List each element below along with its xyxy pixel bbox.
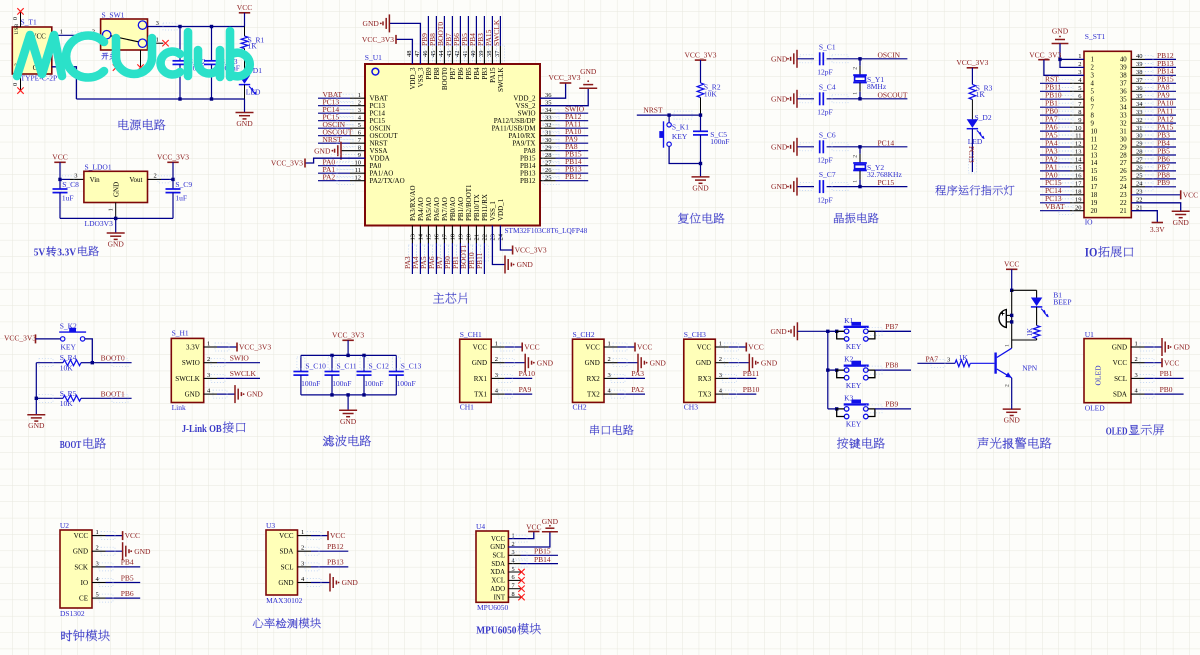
chip pin 48 VDD_3 to VCC_3V3	[362, 35, 417, 90]
svg-text:VCC_3V3: VCC_3V3	[362, 35, 394, 44]
svg-text:PA3: PA3	[631, 369, 644, 378]
label OLED显示屏	[1106, 424, 1164, 437]
CH2 pin1 VCC	[604, 343, 652, 352]
ground C6 left	[771, 138, 814, 156]
chip pin 3 PC14 net PC14	[318, 105, 386, 118]
svg-text:PB6: PB6	[457, 67, 465, 80]
junction C4	[858, 97, 861, 100]
svg-text:18: 18	[450, 234, 457, 241]
J-Link pin3 SWCLK	[204, 369, 260, 382]
IO port row 7 pin numbers	[1078, 101, 1143, 112]
chip pin 12 PA2/TX/AO net PA2	[318, 172, 405, 185]
svg-text:24: 24	[498, 233, 505, 240]
svg-text:BOOT1: BOOT1	[101, 389, 125, 398]
svg-text:PA2/TX/AO: PA2/TX/AO	[370, 177, 405, 185]
J-Link pin1 VCC_3V3	[204, 343, 272, 352]
junction C6	[858, 145, 861, 148]
svg-text:MPU6050: MPU6050	[477, 603, 509, 612]
svg-text:22: 22	[1120, 200, 1127, 207]
svg-text:PB9: PB9	[885, 400, 898, 409]
svg-text:GND: GND	[314, 146, 331, 155]
svg-text:Link: Link	[172, 403, 186, 412]
IO port pin 37 net PB15	[1131, 75, 1176, 88]
IO pin22 ground	[1131, 203, 1189, 227]
OLED pin1 ground	[1131, 338, 1190, 356]
chip pin 44 BOOT0 net BOOT0	[436, 16, 449, 90]
label 滤波电路	[323, 435, 371, 446]
button K1 KEY	[828, 316, 875, 351]
T1 no-connect stub top	[12, 8, 24, 27]
capacitor C2	[173, 27, 206, 100]
ground power circuit	[236, 99, 254, 128]
U3 pin 4 name	[278, 576, 305, 587]
wire alarm vertical	[1010, 290, 1013, 340]
svg-text:PB7: PB7	[449, 67, 457, 80]
label 电源电路	[119, 119, 166, 130]
svg-text:1: 1	[108, 208, 115, 211]
svg-text:VCC: VCC	[125, 531, 140, 540]
IO port pin 8 net PB0	[1040, 107, 1084, 120]
U4 pin 5 no-connect	[508, 569, 524, 575]
svg-text:S_C9: S_C9	[175, 180, 192, 189]
svg-text:VCC: VCC	[585, 343, 600, 351]
IO port pin 27 net PB6	[1131, 154, 1176, 167]
IO port pin 15 net PA1	[1040, 162, 1084, 175]
power port VCC alarm	[1004, 260, 1019, 291]
chip pin 4 PC15 net PC15	[318, 112, 386, 125]
svg-text:PB10/TX: PB10/TX	[473, 194, 481, 221]
resistor 1K alarm	[1026, 326, 1040, 341]
svg-text:GND: GND	[692, 183, 709, 192]
connector CH1 body	[460, 330, 492, 412]
IO port row 14 pin numbers	[1075, 157, 1143, 168]
svg-text:PB10: PB10	[743, 385, 760, 394]
svg-text:USB: USB	[14, 23, 20, 34]
ground reset	[692, 164, 710, 193]
svg-text:6: 6	[1091, 97, 1095, 104]
svg-text:PB12: PB12	[520, 177, 536, 185]
chip pin 27 PB14 net PB14	[520, 157, 588, 170]
junction ldo-in	[58, 178, 61, 181]
svg-text:VCC: VCC	[330, 531, 345, 540]
svg-text:100nF: 100nF	[301, 379, 320, 388]
chip pin 38 PA15 net PA15	[484, 16, 497, 83]
svg-text:GND: GND	[1174, 343, 1191, 352]
chip pin 5 OSCIN net OSCIN	[318, 120, 391, 133]
svg-text:GND: GND	[1052, 27, 1069, 36]
svg-text:DS1302: DS1302	[60, 609, 85, 618]
svg-text:KEY: KEY	[846, 420, 862, 429]
CH1 pin2 ground	[491, 354, 553, 372]
U3 pin 3 name	[281, 560, 305, 571]
svg-text:GND: GND	[770, 327, 787, 336]
svg-text:17: 17	[1091, 184, 1098, 191]
IO port pin 11 net PA5	[1040, 130, 1084, 143]
CH1 pin 2 name	[472, 356, 498, 367]
U3 pin4 ground	[298, 574, 359, 592]
svg-text:TX1: TX1	[474, 391, 487, 399]
power port VCC_3V3 IO	[1029, 51, 1084, 76]
chip pin 26 PB13 net PB13	[520, 165, 588, 178]
SW1 pin1 no-connect	[148, 37, 169, 47]
chip pin 18 PB0/AO net PB0	[443, 197, 457, 274]
svg-text:S_CH1: S_CH1	[460, 330, 482, 339]
svg-text:S_K1: S_K1	[672, 123, 689, 132]
IO port row 12 pin numbers	[1075, 141, 1143, 152]
svg-text:SDA: SDA	[491, 561, 505, 568]
svg-text:OSCIN: OSCIN	[878, 50, 901, 59]
OLED pin4 net PB0	[1131, 385, 1184, 398]
svg-text:13: 13	[410, 234, 417, 241]
svg-text:SCL: SCL	[281, 563, 294, 571]
svg-text:GND: GND	[185, 391, 200, 399]
svg-text:GND: GND	[585, 359, 600, 367]
svg-text:100nF: 100nF	[397, 379, 416, 388]
U4 pin 1 name	[491, 532, 515, 542]
svg-text:U4: U4	[476, 522, 485, 531]
svg-text:33: 33	[1120, 112, 1127, 119]
chip pin 22 PB11/RX net PB11	[475, 194, 489, 274]
svg-text:18: 18	[1091, 192, 1098, 199]
IO port pin 17 net PC15	[1040, 178, 1084, 191]
svg-text:U1: U1	[1085, 330, 1094, 339]
junction boot gnd	[35, 397, 38, 400]
chip pin 42 PB6 net PB6	[452, 16, 465, 80]
chip pin 10 PA0 net PA0	[318, 157, 382, 170]
svg-text:4: 4	[1091, 81, 1095, 88]
svg-text:VCC_3V3: VCC_3V3	[515, 246, 547, 255]
label BOOT电路	[60, 438, 106, 451]
svg-text:GND: GND	[771, 54, 788, 63]
U3 pin3 net PB13	[298, 558, 349, 571]
svg-text:15: 15	[1091, 168, 1098, 175]
svg-text:15: 15	[426, 234, 433, 241]
chip pin 36 VDD_2 to VCC_3V3	[513, 73, 580, 102]
capacitor C12	[357, 355, 390, 395]
svg-text:40: 40	[1120, 57, 1127, 64]
power port VCC_3V3 reset	[684, 50, 716, 60]
svg-text:J-Link OB: J-Link OB	[182, 424, 222, 435]
U2 pin 2 name	[73, 545, 99, 556]
CH3 pin 3 name	[698, 372, 722, 383]
svg-text:S_LDO1: S_LDO1	[85, 163, 112, 172]
OLED pin 3 name	[1114, 372, 1138, 383]
svg-text:1K: 1K	[248, 42, 258, 51]
svg-text:GND: GND	[1112, 343, 1127, 351]
ground IO top	[1052, 27, 1084, 68]
chip pin 15 PA5/AO net PA5	[419, 197, 433, 274]
label 复位电路	[678, 213, 725, 224]
IO port pin 13 net PA3	[1040, 146, 1084, 159]
chip pin 45 PB8 net PB8	[428, 16, 441, 80]
svg-text:GND: GND	[490, 544, 505, 551]
svg-text:GND: GND	[537, 358, 554, 367]
svg-text:39: 39	[1120, 65, 1127, 72]
svg-text:S_T1: S_T1	[21, 18, 38, 27]
svg-text:SWCLK: SWCLK	[492, 19, 501, 46]
U4 pin2 ground	[508, 517, 558, 547]
net NRST wire	[637, 105, 701, 119]
U2 pin1 VCC	[92, 531, 140, 540]
svg-text:24: 24	[1120, 184, 1127, 191]
svg-text:12pF: 12pF	[817, 156, 832, 165]
svg-text:3.3V: 3.3V	[57, 246, 76, 258]
wire LDO gnd pin	[108, 203, 116, 219]
IO port pin 19 net PC13	[1040, 194, 1084, 207]
IO port pin 32 net PA12	[1131, 115, 1176, 128]
U4 pin4 net PB14	[508, 555, 558, 567]
diode LED alarm	[1031, 290, 1072, 325]
svg-text:VCC: VCC	[1004, 260, 1019, 269]
IO port pin 35 net PA9	[1131, 91, 1176, 104]
buzzer B1	[999, 310, 1012, 328]
IO pin21 3.3V	[1131, 211, 1165, 234]
CH3 pin2 ground	[715, 354, 777, 372]
CH1 pin1 VCC	[491, 343, 539, 352]
ground C4 left	[771, 90, 814, 108]
svg-text:1uF: 1uF	[175, 193, 187, 202]
CH1 pin 3 name	[474, 372, 498, 383]
svg-text:VCC_3V3: VCC_3V3	[271, 159, 303, 168]
svg-text:K3: K3	[844, 394, 853, 403]
svg-text:VCC: VCC	[279, 532, 294, 540]
svg-text:S_ST1: S_ST1	[1085, 32, 1106, 41]
wire alarm gnd stub	[1011, 403, 1013, 409]
svg-text:LDO3V3: LDO3V3	[85, 219, 114, 228]
junction nrst-key	[667, 113, 670, 116]
junction IO gnd pin1	[1058, 58, 1061, 61]
wire boot left bus	[35, 363, 37, 399]
CH2 pin 2 name	[585, 356, 611, 367]
svg-text:GND: GND	[542, 517, 559, 526]
label 时钟模块	[61, 630, 110, 642]
svg-text:21: 21	[1120, 208, 1127, 215]
svg-text:28: 28	[1120, 152, 1127, 159]
power port VCC_3V3 indicator	[956, 58, 988, 84]
IO port pin 6 net PB10	[1040, 91, 1084, 104]
svg-text:23: 23	[1120, 192, 1127, 199]
button K1 KEY reset	[659, 115, 700, 163]
chip pin 1 VBAT net VBAT	[318, 90, 389, 103]
U2 pin5 net PB6	[92, 589, 140, 602]
svg-text:GND: GND	[247, 390, 264, 399]
svg-text:PB5: PB5	[465, 67, 473, 80]
IO port pin 18 net PC14	[1040, 186, 1084, 199]
svg-text:SWIO: SWIO	[230, 353, 250, 362]
IO port row 19 pin numbers	[1075, 197, 1143, 208]
svg-text:12pF: 12pF	[817, 68, 832, 77]
svg-text:BEEP: BEEP	[1053, 298, 1071, 307]
chip pin 32 PA11/USB/DM net PA11	[492, 120, 589, 133]
svg-text:8: 8	[1091, 112, 1095, 119]
svg-text:9: 9	[1091, 120, 1095, 127]
svg-text:VSS_1: VSS_1	[489, 201, 497, 221]
junction C2 top	[178, 25, 181, 28]
wire Vout	[148, 173, 174, 183]
label IO拓展口	[1085, 245, 1133, 259]
CH3 pin 2 name	[696, 356, 722, 367]
svg-text:GND: GND	[1173, 218, 1190, 227]
svg-text:VCC_3V3: VCC_3V3	[4, 334, 36, 343]
junction C1	[858, 57, 861, 60]
power GND rail bottom	[76, 97, 244, 100]
net PC14	[878, 138, 895, 147]
svg-text:PA7: PA7	[926, 354, 939, 363]
connector CH3 body	[684, 330, 716, 412]
svg-text:NPN: NPN	[1022, 363, 1038, 372]
button K2 KEY boot	[59, 322, 86, 352]
svg-text:VCC: VCC	[637, 343, 652, 352]
IO port row 3 pin numbers	[1078, 69, 1142, 80]
svg-text:PA6/AO: PA6/AO	[433, 197, 441, 221]
svg-text:21: 21	[474, 234, 481, 241]
svg-text:31: 31	[1120, 128, 1127, 135]
chip pin 17 PA7/AO net PA7	[435, 197, 449, 274]
svg-text:PA15: PA15	[489, 67, 497, 83]
svg-text:GND: GND	[236, 119, 253, 128]
svg-text:IO: IO	[1085, 245, 1098, 259]
junction ldo-out	[171, 178, 174, 181]
chip pin 25 PB12 net PB12	[520, 172, 588, 185]
svg-text:VCC: VCC	[526, 522, 541, 531]
U4 pin 5 name	[490, 566, 514, 576]
net PC13 rotated	[967, 146, 977, 173]
svg-text:3: 3	[1091, 73, 1095, 80]
svg-text:GND: GND	[771, 94, 788, 103]
svg-text:PB3: PB3	[481, 67, 489, 80]
svg-text:2: 2	[1005, 384, 1011, 387]
svg-text:OLED: OLED	[1106, 425, 1128, 437]
svg-text:MAX30102: MAX30102	[266, 596, 303, 605]
svg-text:S_C7: S_C7	[819, 170, 836, 179]
svg-text:OLED: OLED	[1085, 404, 1106, 413]
svg-text:GND: GND	[761, 358, 778, 367]
net PB8	[866, 361, 911, 374]
capacitor C1	[800, 42, 907, 76]
capacitor C7	[800, 170, 907, 204]
svg-text:35: 35	[1120, 97, 1127, 104]
svg-text:SWCLK: SWCLK	[230, 369, 257, 378]
wire T1 pin2 GND rail	[52, 60, 77, 99]
J-Link pin 1 name	[186, 341, 210, 352]
label 程序运行指示灯	[935, 185, 1014, 195]
chip pin 8 VSSA to ground	[314, 142, 387, 160]
U4 pin 8 no-connect	[508, 594, 524, 600]
svg-text:30: 30	[1120, 136, 1127, 143]
svg-text:SWCLK: SWCLK	[497, 68, 505, 93]
svg-text:BOOT: BOOT	[60, 439, 82, 451]
svg-text:GND: GND	[340, 417, 357, 426]
CH2 pin2 ground	[604, 354, 666, 372]
svg-text:0: 0	[12, 83, 19, 86]
svg-text:KEY: KEY	[846, 381, 862, 390]
svg-text:RX1: RX1	[474, 375, 488, 383]
svg-text:GND: GND	[472, 359, 487, 367]
ground C1 left	[771, 50, 814, 68]
IO pin23 VCC	[1131, 190, 1198, 199]
svg-text:GND: GND	[28, 421, 45, 430]
label 按键电路	[837, 438, 885, 449]
svg-text:10K: 10K	[60, 364, 73, 373]
CH3 pin 1 name	[697, 341, 722, 352]
IO port pin 38 net PB14	[1131, 67, 1176, 80]
svg-text:MPU6050: MPU6050	[476, 624, 517, 636]
svg-text:PB9: PB9	[425, 67, 433, 80]
crystal Y1 8MHz	[853, 59, 887, 99]
svg-text:GND: GND	[108, 240, 125, 249]
svg-text:Vin: Vin	[90, 176, 101, 184]
svg-text:GND: GND	[517, 260, 534, 269]
IO port pin 28 net PB5	[1131, 146, 1176, 159]
chip pin 37 SWCLK net SWCLK	[492, 16, 505, 92]
chip pin 19 PB1/AO net PB1	[451, 197, 465, 274]
IO port pin 16 net PA0	[1040, 170, 1084, 183]
svg-text:OSCOUT: OSCOUT	[878, 90, 908, 99]
IO port row 11 pin numbers	[1075, 133, 1142, 144]
svg-text:VCC: VCC	[1164, 358, 1179, 367]
U4 pin 7 no-connect	[508, 586, 524, 592]
ground keys	[770, 322, 827, 340]
CH1 pin 4 name	[474, 388, 499, 399]
svg-text:IO: IO	[1085, 218, 1093, 227]
connector H1 J-Link body	[171, 329, 203, 413]
svg-text:GND: GND	[1004, 416, 1021, 425]
chip pin 14 PA4/AO net PA4	[411, 197, 425, 274]
resistor R2	[697, 60, 721, 115]
svg-text:GND: GND	[73, 548, 88, 556]
svg-text:5V: 5V	[34, 246, 46, 258]
svg-text:1: 1	[853, 180, 859, 183]
wire alarm top branch	[1012, 290, 1037, 297]
chip pin 16 PA6/AO net PA6	[427, 197, 441, 274]
svg-text:GND: GND	[696, 359, 711, 367]
svg-text:INT: INT	[494, 594, 506, 601]
svg-text:100nF: 100nF	[710, 137, 729, 146]
svg-text:SDA: SDA	[279, 548, 293, 556]
svg-text:PC13: PC13	[967, 146, 976, 163]
svg-text:PB1/AO: PB1/AO	[457, 197, 465, 221]
chip pin 9 VDDA to VCC_3V3	[271, 152, 390, 168]
wire ldo bottom rail	[60, 217, 173, 220]
svg-text:S_C8: S_C8	[62, 180, 79, 189]
net PB9	[866, 400, 911, 413]
svg-text:KEY: KEY	[61, 343, 77, 352]
svg-text:RX2: RX2	[587, 375, 601, 383]
svg-text:VDD_3: VDD_3	[409, 67, 417, 90]
svg-text:GND: GND	[342, 578, 359, 587]
svg-text:BOOT0: BOOT0	[101, 354, 125, 363]
IO port pin 30 net PB3	[1131, 130, 1176, 143]
svg-text:SCL: SCL	[1114, 375, 1127, 383]
svg-text:5: 5	[1091, 89, 1095, 96]
svg-text:VCC: VCC	[237, 3, 252, 12]
net PC15	[878, 178, 895, 187]
svg-text:VCC: VCC	[524, 343, 539, 352]
svg-text:14: 14	[418, 233, 425, 240]
OLED pin 1 name	[1112, 341, 1138, 352]
svg-text:1K: 1K	[959, 353, 969, 362]
chip pin 11 PA1/AO net PA1	[318, 165, 393, 178]
IO port pin 5 net PB11	[1040, 83, 1084, 96]
chip pin 30 PA9/TX net PA9	[512, 135, 588, 148]
svg-text:PA3/RX/AO: PA3/RX/AO	[409, 185, 417, 221]
IO port row 4 pin numbers	[1078, 77, 1143, 88]
chip pin 24 VDD_1 to VCC_3V3	[497, 198, 547, 254]
U2 pin 3 name	[74, 560, 98, 571]
connector CH2 body	[573, 330, 605, 412]
svg-text:10: 10	[1091, 128, 1098, 135]
connector U1 OLED body	[1084, 330, 1131, 413]
